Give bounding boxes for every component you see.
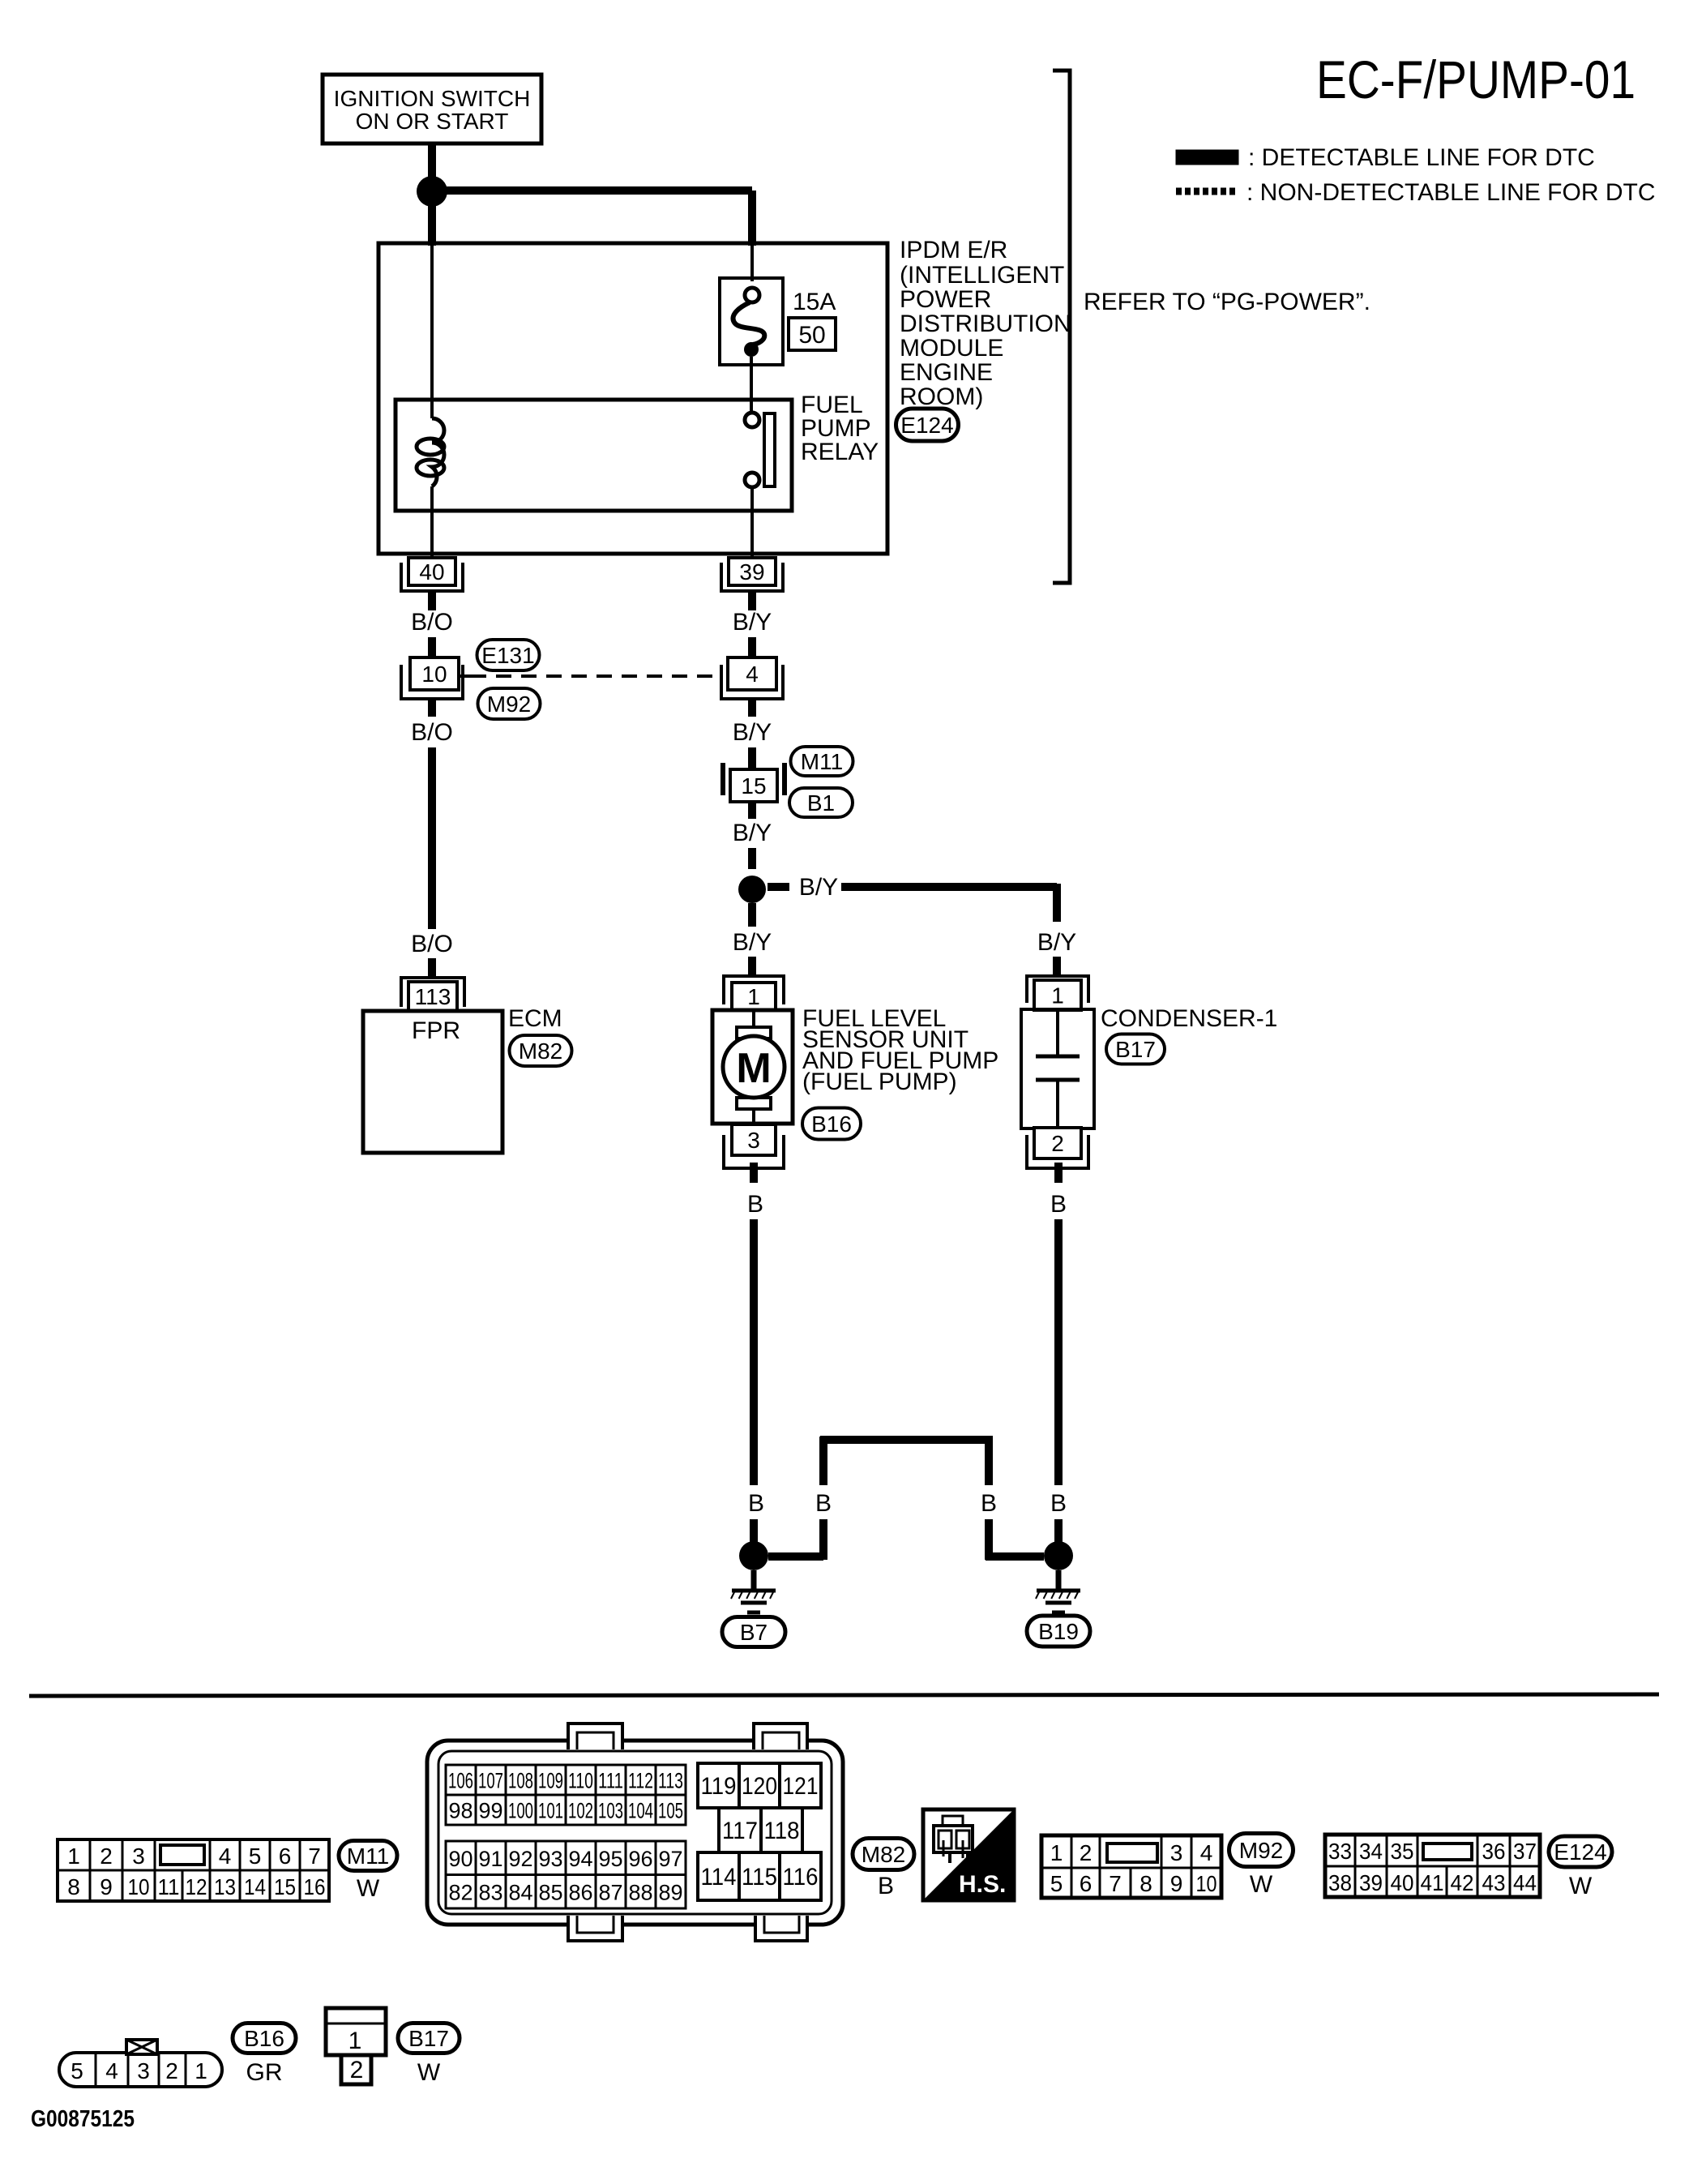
wire B segment below condenser [1054,1163,1063,1183]
svg-text:ECM: ECM [508,1005,562,1032]
svg-text:(INTELLIGENT: (INTELLIGENT [900,262,1064,289]
svg-text:5: 5 [71,2058,83,2083]
connector oval E131 [477,640,540,670]
wire B stub into ground junction left [750,1519,758,1542]
reference bracket [1053,71,1070,583]
fuse 15A box [720,278,783,365]
svg-text:2: 2 [100,1844,113,1869]
svg-text:W: W [1569,1873,1593,1899]
wire junction horizontal to fuse branch [432,186,752,195]
svg-text:B/O: B/O [411,719,453,746]
connector pinout M11 grid [58,1839,329,1901]
connector pinout B17 [326,2008,386,2084]
wire B/Y stub to condenser [1053,957,1061,977]
svg-text:86: 86 [568,1880,592,1904]
svg-text:3: 3 [132,1844,145,1869]
svg-text:108: 108 [508,1769,533,1793]
wire B/Y segment below 39 [748,591,756,610]
svg-text:EC-F/PUMP-01: EC-F/PUMP-01 [1316,49,1636,109]
svg-text:B: B [1050,1191,1067,1218]
svg-text:B17: B17 [1115,1037,1156,1062]
svg-text:E131: E131 [481,643,534,668]
svg-text:1: 1 [1051,983,1064,1008]
svg-text:2: 2 [350,2057,364,2083]
svg-text:14: 14 [244,1874,266,1899]
condenser lead bottom [1056,1081,1059,1128]
legend non-detectable line sample bar [1176,188,1237,195]
svg-text:44: 44 [1513,1870,1537,1895]
fuel pump motor upper brush [737,1027,771,1038]
svg-text:7: 7 [308,1844,321,1869]
svg-text:1: 1 [195,2058,207,2083]
power source box IGNITION SWITCH ON OR START [323,75,541,143]
condenser plate top [1036,1055,1080,1059]
wire B/Y segment below 15 [748,802,756,819]
connector pinout E124 grid [1325,1835,1540,1897]
fuel pump motor circle M [723,1036,785,1098]
condenser plate bottom [1036,1078,1080,1082]
bridge wire horizontal [820,1436,993,1444]
svg-text:M92: M92 [487,692,531,717]
wire inside IPDM fuse branch to fuse [750,246,754,281]
svg-text:B/Y: B/Y [733,820,772,846]
relay contact movable bar [764,413,775,486]
svg-text:119: 119 [701,1773,737,1800]
svg-text:16: 16 [304,1874,326,1899]
svg-text:110: 110 [568,1769,593,1793]
wire junction down to IPDM box [428,191,436,246]
svg-text:M11: M11 [347,1844,389,1869]
svg-text:: DETECTABLE LINE FOR DTC: : DETECTABLE LINE FOR DTC [1248,144,1595,171]
svg-text:93: 93 [538,1847,562,1871]
svg-text:IPDM E/R: IPDM E/R [900,237,1007,263]
svg-text:113: 113 [658,1769,683,1793]
svg-text:121: 121 [783,1773,819,1800]
svg-text:B: B [1050,1490,1067,1517]
relay label FUEL PUMP RELAY [801,392,879,465]
relay coil [432,418,444,486]
svg-text:89: 89 [658,1880,682,1904]
wire B stub into ground junction right [1054,1519,1063,1542]
svg-text:IGNITION SWITCH: IGNITION SWITCH [334,86,531,111]
svg-text:6: 6 [1080,1871,1093,1896]
connector oval M92 bottom [1229,1834,1293,1867]
svg-text:B17: B17 [408,2026,449,2051]
ECM pin grid lower-left pins 82-97 [446,1841,686,1908]
svg-text:115: 115 [742,1864,777,1891]
fuel pump connector 1 bracket [724,976,784,1004]
ECM connector housing outline [427,1741,843,1925]
svg-text:117: 117 [722,1818,758,1844]
svg-text:W: W [1250,1871,1273,1898]
connector 15 right bracket bar [782,763,787,795]
svg-text:84: 84 [508,1880,532,1904]
svg-text:B: B [981,1490,997,1517]
condenser lead top [1056,1010,1059,1055]
svg-text:39: 39 [1359,1870,1383,1895]
svg-text:2: 2 [1080,1840,1093,1865]
separator rule [29,1694,1659,1696]
svg-text:15: 15 [274,1874,296,1899]
svg-text:87: 87 [598,1880,622,1904]
svg-text:3: 3 [1170,1840,1183,1865]
svg-text:8: 8 [1140,1871,1152,1896]
wire B long segment condenser to ground [1054,1219,1063,1485]
svg-text:10: 10 [421,662,447,687]
svg-text:E124: E124 [1554,1839,1606,1865]
svg-text:50: 50 [798,322,825,349]
connector 39 bracket [721,563,783,591]
svg-text:101: 101 [538,1799,563,1823]
svg-text:4: 4 [1200,1840,1213,1865]
condenser connector 2 bracket [1027,1135,1088,1168]
wire condenser branch corner down [1053,884,1061,922]
wire B/Y segment to connector 15 [748,747,756,769]
svg-text:4: 4 [746,662,759,687]
wire B/O stub to connector 113 [428,958,436,977]
svg-text:100: 100 [508,1799,533,1823]
svg-text:B/O: B/O [411,931,453,957]
svg-text:CONDENSER-1: CONDENSER-1 [1101,1005,1277,1032]
svg-text:B/O: B/O [411,609,453,636]
connector oval M11 bottom [339,1841,397,1871]
condenser connector terminal 2 [1034,1128,1081,1158]
svg-text:B16: B16 [244,2026,284,2051]
connector 15 left bracket bar [720,763,725,795]
junction dot A [417,176,447,207]
condenser body box [1021,1009,1094,1128]
svg-text:6: 6 [279,1844,292,1869]
svg-text:34: 34 [1359,1839,1383,1864]
svg-text:3: 3 [747,1128,760,1153]
svg-text:99: 99 [478,1799,502,1823]
svg-text:109: 109 [538,1769,563,1793]
svg-text:B/Y: B/Y [733,719,772,746]
fuel pump body box [712,1010,793,1124]
svg-text:9: 9 [100,1874,113,1899]
wire B/Y segment to connector 4 [748,637,756,658]
wire fuse to relay contact [750,357,753,413]
svg-text:111: 111 [598,1769,623,1793]
connector terminal 113 [408,982,457,1011]
svg-text:B: B [815,1490,832,1517]
ECM pin grid right cluster pins 114-121 [698,1763,821,1900]
bridge wire left arm into junction [768,1552,823,1561]
svg-text:ON OR START: ON OR START [356,109,509,134]
svg-text:97: 97 [658,1847,682,1871]
wire stub right of junction B [768,883,789,891]
fuel pump connector 3 bracket [724,1135,784,1168]
fuel pump relay box outline [396,400,792,511]
svg-text:H.S.: H.S. [959,1871,1006,1898]
connector 4 bracket [721,665,783,699]
svg-text:: NON-DETECTABLE LINE FOR DTC: : NON-DETECTABLE LINE FOR DTC [1246,179,1656,206]
svg-text:7: 7 [1109,1871,1122,1896]
svg-text:B19: B19 [1038,1619,1079,1644]
svg-text:92: 92 [508,1847,532,1871]
wire B/Y stub to fuel pump [748,957,756,977]
svg-text:B/Y: B/Y [799,874,838,901]
svg-text:116: 116 [783,1864,819,1891]
dashed splice line between 10 and 4 [471,674,721,678]
svg-text:1: 1 [348,2028,362,2054]
svg-text:13: 13 [214,1874,236,1899]
connector pinout M92 grid [1041,1835,1221,1898]
svg-text:96: 96 [628,1847,652,1871]
svg-text:W: W [417,2059,441,2086]
svg-text:RELAY: RELAY [801,439,879,465]
svg-text:12: 12 [186,1874,207,1899]
ECM pin grid upper-left pins 98-113 [446,1765,686,1825]
svg-text:2: 2 [165,2058,178,2083]
svg-text:38: 38 [1328,1870,1352,1895]
wire B/O segment to connector 10 [428,637,436,658]
connector oval B17 bottom [398,2023,460,2053]
ground junction dot right [1044,1541,1073,1570]
ECM housing bottom tab 1 [568,1916,622,1941]
svg-text:120: 120 [742,1773,777,1800]
ECM housing top tab 2 [754,1724,807,1749]
condenser connector 1 bracket [1027,976,1088,1003]
svg-text:4: 4 [219,1844,232,1869]
svg-text:ENGINE: ENGINE [900,359,993,386]
svg-text:102: 102 [568,1799,593,1823]
svg-text:105: 105 [658,1799,683,1823]
svg-text:107: 107 [478,1769,503,1793]
ground symbol left [731,1570,776,1612]
fuel pump internal wire bottom [752,1109,755,1124]
svg-text:1: 1 [747,984,760,1009]
fuel pump motor lower brush [737,1098,771,1109]
svg-text:3: 3 [137,2058,150,2083]
svg-text:40: 40 [1391,1870,1414,1895]
svg-text:B1: B1 [807,790,835,816]
svg-text:B/Y: B/Y [733,929,772,956]
svg-text:91: 91 [478,1847,502,1871]
wire fuse branch down to IPDM box [748,191,756,246]
connector oval B1 [789,788,853,817]
connector oval E124 beside IPDM [896,409,959,441]
connector terminal 39 [729,558,776,585]
wire relay contact to IPDM bottom [750,487,754,558]
svg-text:94: 94 [568,1847,592,1871]
connector terminal 15 [730,769,777,802]
connector terminal 10 [410,657,459,690]
fuel pump connector terminal 1 [732,983,776,1010]
ground junction dot left [739,1541,768,1570]
svg-text:M92: M92 [1239,1838,1283,1863]
IPDM E/R box outline [378,243,887,554]
wire B long segment pump to ground [750,1219,758,1485]
svg-text:2: 2 [1051,1131,1064,1156]
connector terminal 40 [408,558,455,585]
svg-text:106: 106 [448,1769,473,1793]
fuse number box 50 [789,318,836,350]
connector oval E124 bottom [1549,1836,1612,1867]
wire B segment below fuel pump [750,1163,758,1183]
connector oval M11 upper [791,747,853,776]
svg-text:112: 112 [628,1769,653,1793]
tick from connector 10 to splice line [459,674,471,678]
ground symbol right [1036,1570,1080,1612]
svg-text:5: 5 [249,1844,262,1869]
legend detectable line sample bar [1176,150,1238,165]
relay contact upper terminal circle [745,413,759,427]
svg-text:POWER: POWER [900,286,991,313]
bridge wire right arm into junction [986,1552,1044,1561]
wire B/Y segment to junction B [748,848,756,869]
wire B/O long segment to ECM [428,747,436,929]
svg-text:36: 36 [1482,1839,1506,1864]
condenser connector terminal 1 [1034,980,1081,1010]
svg-text:B/Y: B/Y [733,609,772,636]
svg-text:15: 15 [741,773,766,799]
svg-text:M82: M82 [519,1038,562,1064]
svg-text:42: 42 [1451,1870,1474,1895]
svg-text:43: 43 [1482,1870,1506,1895]
bridge wire left arm lower [819,1519,827,1560]
svg-text:DISTRIBUTION: DISTRIBUTION [900,310,1071,337]
svg-text:98: 98 [448,1799,472,1823]
fuse top terminal circle [745,288,759,302]
svg-text:41: 41 [1421,1870,1444,1895]
svg-text:B: B [878,1873,894,1899]
connector pinout B16 pill [59,2040,222,2087]
svg-text:83: 83 [478,1880,502,1904]
svg-text:104: 104 [628,1799,653,1823]
svg-text:9: 9 [1170,1871,1183,1896]
ECM housing bottom tab 2 [755,1916,807,1941]
wire B/Y segment below 4 [748,699,756,717]
IPDM E/R annotation text [900,237,1071,410]
svg-text:W: W [357,1875,380,1902]
connector oval B16 [802,1108,861,1140]
svg-text:33: 33 [1328,1839,1352,1864]
connector oval M82 bottom [853,1839,914,1870]
svg-text:M: M [736,1045,771,1092]
ground name oval B19 [1027,1616,1090,1647]
svg-text:95: 95 [598,1847,622,1871]
svg-text:4: 4 [105,2058,118,2083]
svg-text:B7: B7 [740,1620,768,1645]
svg-text:M11: M11 [801,749,843,774]
svg-text:FPR: FPR [412,1017,460,1044]
connector 10 bracket [401,665,463,699]
ECM box [363,1011,502,1153]
fuel pump internal wire top [752,1010,755,1027]
H.S. inspection box [923,1809,1014,1900]
bridge wire right arm upper [985,1437,993,1485]
ground name oval B7 [722,1617,785,1647]
svg-text:82: 82 [448,1880,472,1904]
svg-text:10: 10 [128,1874,150,1899]
svg-text:8: 8 [67,1874,80,1899]
svg-text:B: B [747,1191,763,1218]
wire B/Y horizontal to condenser branch [841,883,1057,891]
wire B/O segment below 10 [428,699,436,717]
fuse bottom terminal dot [744,342,759,357]
ECM housing top tab 1 [568,1724,622,1749]
junction dot B [738,876,766,903]
svg-text:ROOM): ROOM) [900,383,983,410]
svg-text:114: 114 [701,1864,737,1891]
connector oval M92 upper [478,688,541,719]
fuel pump label text [802,1005,998,1095]
wire B/Y segment below junction B [748,903,756,927]
svg-text:B16: B16 [811,1111,852,1137]
svg-text:11: 11 [158,1874,180,1899]
connector oval M82 beside ECM [510,1035,572,1066]
svg-text:35: 35 [1391,1839,1414,1864]
svg-text:15A: 15A [793,289,836,315]
bridge wire left arm upper [819,1437,827,1485]
fuel pump connector terminal 3 [732,1124,776,1155]
svg-text:103: 103 [598,1799,623,1823]
svg-text:40: 40 [419,559,444,585]
bridge wire right arm lower [985,1519,993,1560]
svg-text:5: 5 [1050,1871,1063,1896]
wire ignition switch to junction [428,143,436,180]
svg-text:G00875125: G00875125 [31,2106,135,2132]
connector oval B16 bottom [233,2023,296,2053]
wire inside IPDM left to relay coil [430,246,434,418]
svg-text:E124: E124 [900,413,953,438]
connector 113 bracket [401,978,464,1007]
svg-text:88: 88 [628,1880,652,1904]
svg-text:39: 39 [739,559,764,585]
svg-text:10: 10 [1196,1871,1217,1896]
connector oval B17 [1106,1034,1165,1064]
svg-text:37: 37 [1513,1839,1537,1864]
svg-text:REFER TO “PG-POWER”.: REFER TO “PG-POWER”. [1084,289,1370,315]
svg-text:MODULE: MODULE [900,335,1003,362]
connector 40 bracket [401,563,463,591]
svg-text:90: 90 [448,1847,472,1871]
fuse element S-curve [733,302,764,345]
svg-text:1: 1 [67,1844,80,1869]
svg-text:118: 118 [764,1818,800,1844]
svg-text:85: 85 [538,1880,562,1904]
wire relay coil to IPDM bottom [430,486,434,558]
connector terminal 4 [728,657,776,690]
svg-text:GR: GR [246,2059,283,2086]
svg-text:(FUEL PUMP): (FUEL PUMP) [802,1068,957,1095]
svg-text:M82: M82 [862,1842,905,1867]
svg-text:B/Y: B/Y [1037,929,1076,956]
wire B/O segment below 40 [428,591,436,610]
svg-text:1: 1 [1050,1840,1063,1865]
svg-text:113: 113 [415,984,451,1009]
relay contact lower terminal circle [745,473,759,487]
svg-text:B: B [748,1490,764,1517]
